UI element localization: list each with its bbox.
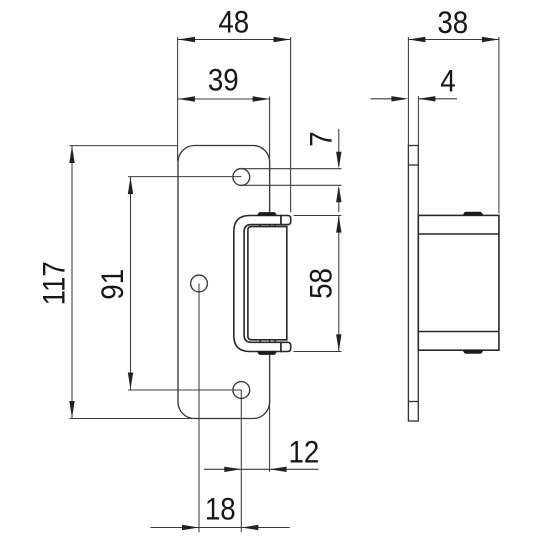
dimension line 38 <box>408 39 499 41</box>
extension line top (plate top edge) <box>69 145 178 147</box>
bottom screw hole (diam 7) <box>233 382 250 399</box>
leader tail left <box>204 468 241 470</box>
arrowhead pointing left <box>418 96 435 101</box>
sleeve end ring tick bottom left <box>259 340 261 342</box>
extension line right (plate right edge) <box>269 96 271 213</box>
arrowhead right <box>274 37 291 42</box>
arrowhead left <box>178 37 195 42</box>
middle screw hole (diam 7) <box>191 275 208 292</box>
svg-text:39: 39 <box>208 63 239 98</box>
dimension 39 <box>178 63 270 213</box>
leader tail right <box>418 98 457 100</box>
dimension 18 <box>150 284 289 533</box>
extension line right (housing right edge) <box>290 37 292 212</box>
arrowhead pointing right <box>391 96 408 101</box>
arrowhead pointing up <box>336 185 341 202</box>
extension line top (handle top edge) <box>294 215 342 217</box>
pivot cap bottom, front view <box>258 351 277 354</box>
dimension line 39 <box>178 98 270 100</box>
grip sleeve, front view <box>248 225 287 343</box>
extension line left (bottom hole centerline) <box>240 390 242 532</box>
extension line bottom (plate bottom edge) <box>69 418 193 420</box>
extension line left (plate left edge) <box>177 37 179 161</box>
svg-text:7: 7 <box>304 131 339 146</box>
corner tangent line top <box>408 164 418 166</box>
arrowhead top <box>69 146 74 163</box>
dimension line 18 <box>199 527 241 529</box>
dimension 48 <box>178 5 291 212</box>
svg-text:12: 12 <box>288 435 319 470</box>
leader tail left <box>371 98 392 100</box>
extension line top (hole top tangent) <box>240 168 342 170</box>
handle block, side view <box>418 215 499 350</box>
leader tail above <box>338 129 340 166</box>
top screw hole (diam 7) <box>233 169 250 186</box>
dimension 38 <box>408 5 499 213</box>
leader tail left <box>150 527 199 529</box>
arrowhead bottom <box>336 334 341 351</box>
arrowhead top <box>336 216 341 233</box>
svg-text:38: 38 <box>437 5 468 40</box>
dimension 7 (hole diameter) <box>240 129 342 212</box>
dimension line 12 <box>241 468 269 470</box>
arrowhead bottom <box>128 373 133 390</box>
extension line top (top hole center) <box>128 176 241 178</box>
dimension 58 <box>294 216 342 352</box>
arrowhead pointing left <box>270 467 287 472</box>
arrowhead left <box>178 96 195 101</box>
dimension 117 <box>37 146 193 419</box>
svg-text:4: 4 <box>440 64 455 99</box>
extension line bottom (bottom hole center) <box>128 389 241 391</box>
leader tail right <box>270 468 319 470</box>
dimension 12 <box>204 352 319 532</box>
arrowhead top <box>128 177 133 194</box>
arrowhead pointing right <box>224 467 241 472</box>
svg-text:58: 58 <box>304 268 339 299</box>
handle end housing top, front view <box>281 216 291 225</box>
mounting plate, side view <box>408 146 418 422</box>
housing parting line bottom <box>418 331 499 333</box>
dimension line 117 <box>71 146 73 419</box>
svg-text:48: 48 <box>218 5 249 40</box>
sleeve end ring tick top left <box>259 225 261 227</box>
pivot cap top, side view <box>463 212 483 215</box>
arrowhead right <box>253 96 270 101</box>
dimension line 91 <box>130 177 132 390</box>
extension line bottom (hole bottom tangent) <box>240 184 342 186</box>
arrowhead bottom <box>69 401 74 418</box>
arrowhead pointing left <box>241 525 258 530</box>
dimension line 48 <box>178 39 291 41</box>
handle end housing bottom, front view <box>281 342 291 351</box>
pivot cap bottom, side view <box>463 350 483 353</box>
dimension 4 (plate thickness) <box>371 64 458 146</box>
extension line left (plate front face) <box>407 37 409 146</box>
extension line right (block right face) <box>498 37 500 213</box>
svg-text:117: 117 <box>37 261 72 305</box>
sleeve end ring tick top right <box>274 225 276 227</box>
svg-text:18: 18 <box>205 492 236 527</box>
pivot cap top, front view <box>258 213 277 216</box>
arrowhead right <box>482 37 499 42</box>
extension line bottom (handle bottom edge) <box>294 351 342 353</box>
extension line left (middle hole centerline) <box>198 284 200 533</box>
arrowhead left <box>408 37 425 42</box>
leader tail right <box>241 527 289 529</box>
corner tangent line bottom <box>408 401 418 403</box>
extension line right (plate back face) <box>417 96 419 146</box>
sleeve end ring tick bottom right <box>274 340 276 342</box>
svg-text:91: 91 <box>95 269 130 300</box>
arrowhead pointing right <box>182 525 199 530</box>
mounting plate, front view <box>178 146 270 419</box>
handle bow tube, front view <box>234 216 281 352</box>
extension line right (plate right edge) <box>269 352 271 472</box>
housing parting line top <box>418 233 499 235</box>
dimension 91 <box>95 177 241 390</box>
leader tail below <box>338 188 340 212</box>
arrowhead pointing down <box>336 152 341 169</box>
dimension line 58 <box>338 216 340 352</box>
